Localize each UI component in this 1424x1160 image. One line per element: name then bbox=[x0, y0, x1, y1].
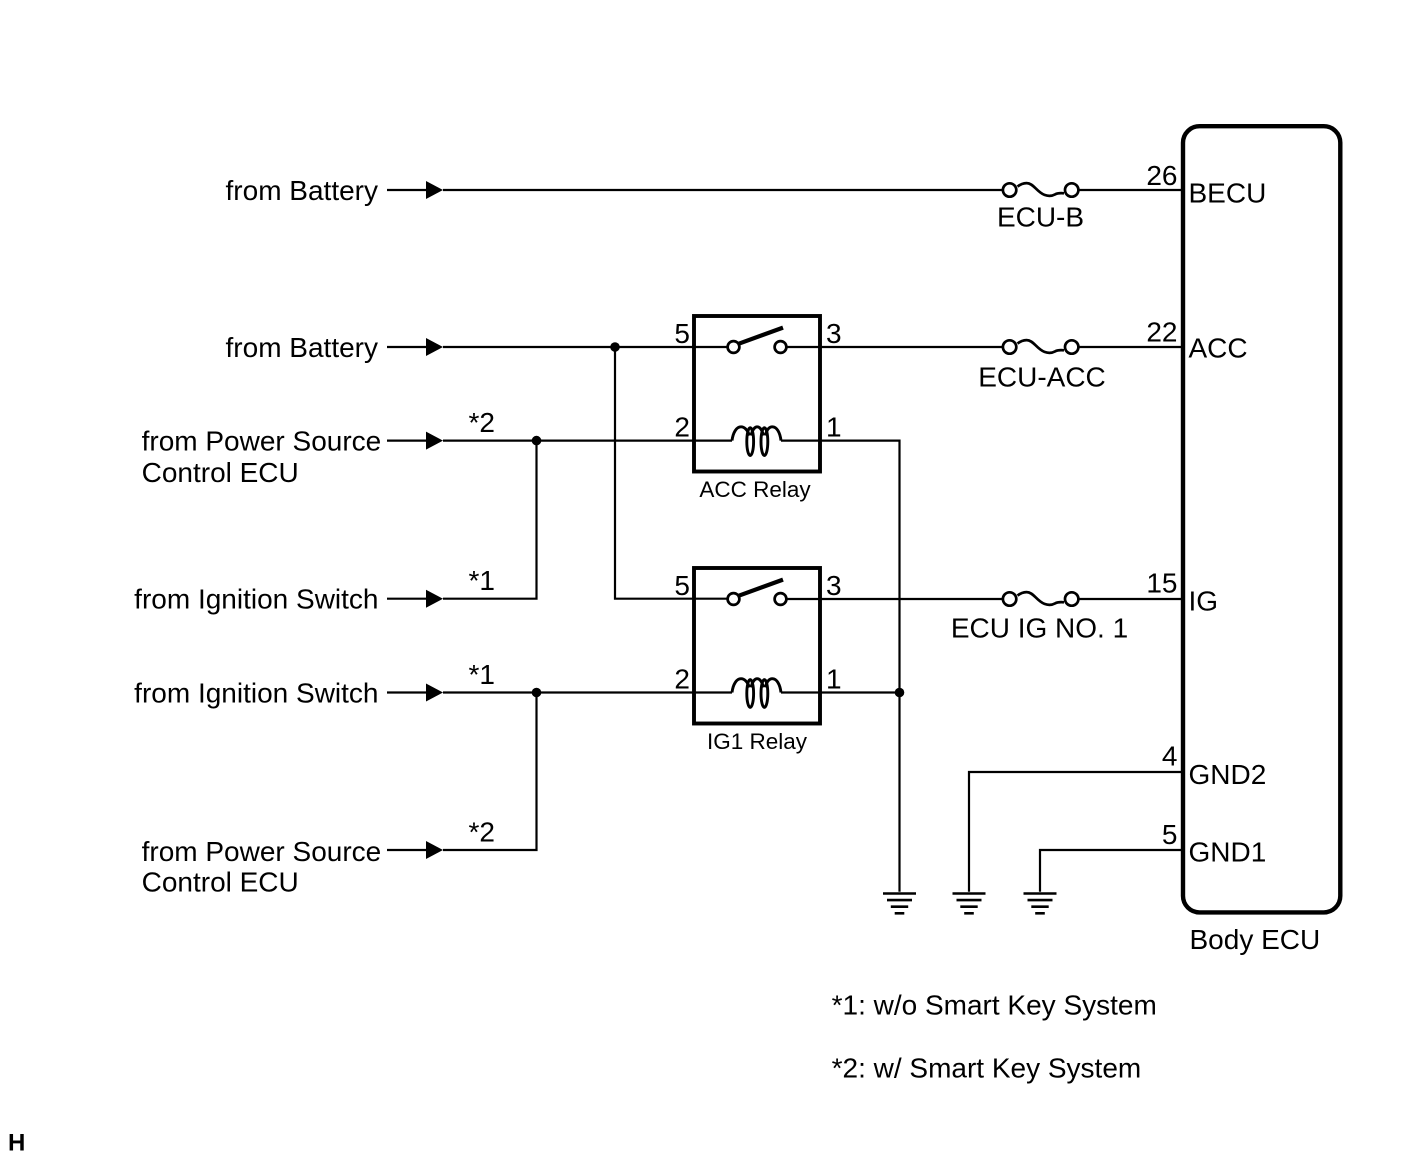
wire ACC relay coil to pin 1 and down bbox=[781, 441, 900, 892]
wire ACC relay pin 3 to fuse ECU-ACC bbox=[786, 346, 1002, 348]
svg-text:*2: *2 bbox=[469, 817, 495, 848]
svg-text:ECU IG NO. 1: ECU IG NO. 1 bbox=[951, 613, 1128, 644]
svg-text:22: 22 bbox=[1146, 316, 1177, 347]
svg-text:from Power Source: from Power Source bbox=[142, 836, 382, 867]
wire from Battery row1 lead bbox=[387, 189, 427, 191]
wire from Battery row2 lead bbox=[387, 346, 427, 348]
pin 5 label IG1 relay bbox=[674, 570, 690, 601]
svg-text:from Power Source: from Power Source bbox=[142, 426, 382, 457]
pin 3 label ACC relay bbox=[826, 318, 842, 349]
switch contact ACC relay pins 5-3 bbox=[728, 328, 787, 353]
pin 2 label IG1 relay bbox=[674, 664, 690, 695]
pin IG label bbox=[1189, 585, 1219, 616]
wire row4 up to row3 junction bbox=[443, 441, 537, 599]
svg-text:2: 2 bbox=[674, 412, 690, 443]
fuse ECU-B bbox=[1003, 183, 1079, 197]
coil ACC relay pins 2-1 bbox=[732, 427, 781, 456]
svg-text:IG: IG bbox=[1189, 585, 1219, 616]
wire GND1 pin 5 to ground bbox=[1040, 850, 1182, 892]
svg-text:26: 26 bbox=[1146, 160, 1177, 191]
pin 4 label bbox=[1162, 740, 1178, 771]
svg-text:5: 5 bbox=[674, 318, 690, 349]
node junction row2/battery branch bbox=[610, 342, 620, 352]
svg-text:*2: *2 bbox=[469, 407, 495, 438]
pin 26 label bbox=[1146, 160, 1177, 191]
pin BECU label bbox=[1189, 177, 1267, 208]
svg-text:*1: *1 bbox=[469, 565, 495, 596]
wire IG1 relay pin 3 to fuse ECU IG NO. 1 bbox=[786, 598, 1002, 600]
svg-text:Body ECU: Body ECU bbox=[1190, 924, 1321, 955]
ECU Body ECU box bbox=[1183, 126, 1340, 912]
ground GND2 bbox=[953, 894, 986, 914]
wire battery branch down to IG1 relay pin 5 bbox=[615, 347, 728, 599]
node junction row5 bbox=[532, 688, 542, 698]
label from Ignition Switch row4 bbox=[134, 584, 378, 615]
svg-text:*1: *1 bbox=[469, 659, 495, 690]
svg-text:1: 1 bbox=[826, 412, 842, 443]
pin GND1 label bbox=[1189, 836, 1267, 867]
pin 2 label ACC relay bbox=[674, 412, 690, 443]
svg-text:ECU-B: ECU-B bbox=[997, 202, 1084, 233]
svg-text:3: 3 bbox=[826, 318, 842, 349]
wire fuse ECU IG NO. 1 to pin 15 bbox=[1079, 598, 1182, 600]
arrow row4 bbox=[426, 590, 443, 608]
svg-text:ACC Relay: ACC Relay bbox=[699, 477, 811, 502]
wire row5 to IG1 relay pin 2 coil bbox=[443, 691, 732, 693]
svg-text:5: 5 bbox=[674, 570, 690, 601]
svg-text:from Battery: from Battery bbox=[226, 332, 378, 363]
wire from Battery row1 to fuse ECU-B bbox=[443, 189, 1002, 191]
svg-text:from Ignition Switch: from Ignition Switch bbox=[134, 678, 378, 709]
svg-text:*1: w/o Smart Key System: *1: w/o Smart Key System bbox=[832, 990, 1157, 1021]
label *2 row6 bbox=[469, 817, 495, 848]
label ACC Relay bbox=[699, 477, 811, 502]
node junction relay coils ground bbox=[895, 688, 905, 698]
pin 5 label ACC relay bbox=[674, 318, 690, 349]
switch contact IG1 relay pins 5-3 bbox=[728, 580, 787, 605]
svg-text:ECU-ACC: ECU-ACC bbox=[978, 362, 1106, 393]
svg-text:from Battery: from Battery bbox=[226, 175, 378, 206]
svg-text:IG1 Relay: IG1 Relay bbox=[707, 729, 808, 754]
label from Battery row2 bbox=[226, 332, 378, 363]
svg-text:ACC: ACC bbox=[1189, 332, 1248, 363]
arrow row5 bbox=[426, 684, 443, 702]
svg-text:*2: w/ Smart Key System: *2: w/ Smart Key System bbox=[832, 1053, 1142, 1084]
label *1 row4 bbox=[469, 565, 495, 596]
fuse ECU-ACC bbox=[1003, 340, 1079, 354]
relay ACC Relay box bbox=[694, 316, 820, 472]
pin 3 label IG1 relay bbox=[826, 570, 842, 601]
label from Power Source Control ECU row6 bbox=[142, 836, 382, 898]
wire from Power Source Control ECU row3 lead bbox=[387, 440, 427, 442]
note *1 w/o Smart Key System bbox=[832, 990, 1157, 1021]
svg-text:2: 2 bbox=[674, 664, 690, 695]
wire IG1 relay coil to pin 1 junction bbox=[781, 691, 900, 693]
arrow row6 bbox=[426, 841, 443, 859]
label from Power Source Control ECU row3 bbox=[142, 426, 382, 488]
node junction row3 bbox=[532, 436, 542, 446]
svg-text:Control ECU: Control ECU bbox=[142, 457, 299, 488]
pin 15 label bbox=[1146, 567, 1177, 598]
fuse ECU IG NO. 1 bbox=[1003, 592, 1079, 606]
svg-text:3: 3 bbox=[826, 570, 842, 601]
relay IG1 Relay box bbox=[694, 568, 820, 724]
svg-text:Control ECU: Control ECU bbox=[142, 867, 299, 898]
arrow from Battery row1 bbox=[426, 181, 443, 199]
svg-text:1: 1 bbox=[826, 664, 842, 695]
wire GND2 pin 4 to ground bbox=[969, 772, 1182, 892]
wire from Power Source Control ECU row6 lead bbox=[387, 849, 427, 851]
label ECU-B bbox=[997, 202, 1084, 233]
svg-text:4: 4 bbox=[1162, 740, 1178, 771]
label from Ignition Switch row5 bbox=[134, 678, 378, 709]
wire row6 up to row5 junction bbox=[443, 693, 537, 851]
ground relay coils bbox=[883, 894, 916, 914]
label H page marker bbox=[8, 1130, 25, 1157]
pin GND2 label bbox=[1189, 759, 1267, 790]
svg-text:15: 15 bbox=[1146, 567, 1177, 598]
pin 1 label IG1 relay bbox=[826, 664, 842, 695]
svg-text:from Ignition Switch: from Ignition Switch bbox=[134, 584, 378, 615]
wire from Battery row2 to ACC relay pin 5 bbox=[443, 346, 728, 348]
label ECU-ACC bbox=[978, 362, 1106, 393]
pin ACC label bbox=[1189, 332, 1248, 363]
label ECU IG NO. 1 bbox=[951, 613, 1128, 644]
note *2 w/ Smart Key System bbox=[832, 1053, 1142, 1084]
wire row3 to ACC relay pin 2 coil bbox=[443, 440, 732, 442]
arrow row3 bbox=[426, 432, 443, 450]
ground GND1 bbox=[1024, 894, 1057, 914]
wire from Ignition Switch row5 lead bbox=[387, 691, 427, 693]
svg-text:5: 5 bbox=[1162, 819, 1178, 850]
svg-text:H: H bbox=[8, 1130, 25, 1157]
label IG1 Relay bbox=[707, 729, 808, 754]
label *1 row5 bbox=[469, 659, 495, 690]
wire fuse ECU-ACC to pin 22 bbox=[1079, 346, 1182, 348]
svg-text:BECU: BECU bbox=[1189, 177, 1267, 208]
wire from Ignition Switch row4 lead bbox=[387, 598, 427, 600]
label from Battery row1 bbox=[226, 175, 378, 206]
coil IG1 relay pins 2-1 bbox=[732, 679, 781, 708]
arrow from Battery row2 bbox=[426, 338, 443, 356]
pin 5 label bbox=[1162, 819, 1178, 850]
wire fuse ECU-B to pin 26 bbox=[1079, 189, 1182, 191]
label *2 row3 bbox=[469, 407, 495, 438]
pin 1 label ACC relay bbox=[826, 412, 842, 443]
svg-text:GND2: GND2 bbox=[1189, 759, 1267, 790]
svg-text:GND1: GND1 bbox=[1189, 836, 1267, 867]
label Body ECU bbox=[1190, 924, 1321, 955]
pin 22 label bbox=[1146, 316, 1177, 347]
